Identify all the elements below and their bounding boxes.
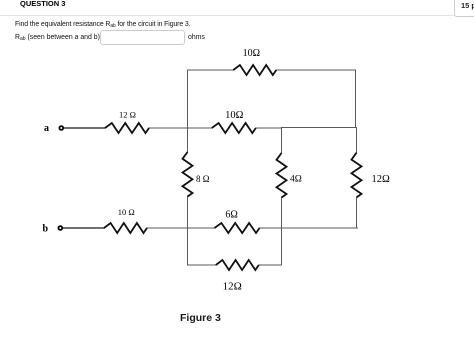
wire R5 to bottom rail node N5	[281, 198, 283, 229]
svg-text:10Ω: 10Ω	[243, 48, 260, 59]
svg-text:10 Ω: 10 Ω	[118, 207, 135, 217]
wire bottom loop left down segment to rail	[188, 264, 216, 266]
wire N1 up to top rail	[187, 70, 189, 128]
ohms label	[188, 34, 205, 41]
resistor R6 12 ohm (vertical right)	[352, 153, 362, 198]
wire N5 to bottom-right corner	[282, 227, 358, 229]
wire N2 down to R5	[281, 128, 283, 153]
terminal a dot	[59, 126, 63, 130]
resistor R8 6 ohm (bottom rail)	[215, 223, 260, 233]
resistor R7 10 ohm (series with b)	[104, 223, 147, 233]
question line 1	[15, 21, 190, 29]
header title	[20, 0, 65, 8]
wire R7 to N4	[147, 227, 188, 229]
wire N1 down to R4	[187, 128, 189, 152]
resistor R9 12 ohm (bottom loop)	[216, 260, 259, 270]
figure caption	[180, 312, 221, 324]
wire b-dot to R7	[63, 227, 105, 229]
points box top-right	[454, 0, 474, 17]
wire N2 to node N3	[282, 127, 357, 129]
wire bottom loop rail right of R9	[259, 264, 282, 266]
svg-text:b: b	[43, 224, 49, 235]
resistor R2 10 ohm (top)	[233, 65, 276, 75]
resistor R4 8 ohm (vertical left)	[183, 152, 193, 197]
svg-text:4Ω: 4Ω	[290, 175, 302, 185]
wire right side of top loop down	[355, 70, 357, 128]
svg-text:12Ω: 12Ω	[223, 280, 242, 292]
header separator line	[0, 15, 454, 16]
wire R1 to node N1	[149, 127, 188, 129]
wire N4 to R8	[188, 227, 215, 229]
answer input box	[100, 30, 185, 45]
resistor R3 10 ohm (middle)	[212, 123, 256, 133]
wire N4 down to bottom loop	[187, 228, 189, 265]
wire top rail left to R2	[188, 69, 234, 71]
wire a-dot to R1	[64, 127, 106, 129]
svg-text:8 Ω: 8 Ω	[196, 174, 210, 184]
terminal b dot	[58, 226, 62, 230]
wire R6 down to bottom rail	[356, 197, 358, 228]
svg-text:10Ω: 10Ω	[225, 110, 244, 121]
svg-text:6Ω: 6Ω	[225, 210, 237, 221]
wire top rail R2 to right corner	[276, 69, 355, 71]
svg-text:12Ω: 12Ω	[372, 174, 391, 185]
wire R4 to bottom rail node N4	[187, 197, 189, 229]
wire R3 to node N2	[256, 127, 282, 129]
resistor R1 12 ohm (series with a)	[105, 123, 149, 133]
wire N5 down to bottom loop	[281, 228, 283, 265]
svg-text:a: a	[44, 123, 49, 134]
svg-text:12 Ω: 12 Ω	[119, 110, 136, 120]
wire N1 to R3	[188, 127, 212, 129]
question line 2	[15, 34, 100, 42]
wire N3 down to R6	[356, 128, 358, 153]
resistor R5 4 ohm (vertical middle)	[277, 153, 287, 198]
wire R8 to N5	[260, 227, 282, 229]
